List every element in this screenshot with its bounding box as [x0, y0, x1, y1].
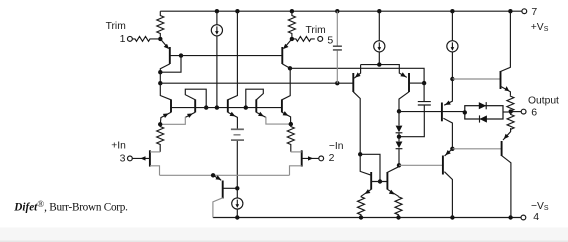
wire -Vs bottom rail: [213, 217, 521, 219]
svg-text:+VS: +VS: [531, 22, 549, 33]
node bottom rail junctions: [235, 215, 513, 219]
resistor R9 (output upper): [507, 96, 514, 112]
node emitters D/E: [289, 122, 293, 126]
node I3 output: [450, 77, 454, 81]
transistor Q5 (cascode NPN C): [228, 99, 238, 128]
svg-text:4: 4: [533, 211, 539, 223]
wire Q1 collector to node A column: [159, 72, 161, 83]
transistor Q14 (output NPN): [501, 11, 511, 96]
pin 1 terminal: [127, 36, 132, 41]
node driver emitter: [450, 147, 454, 151]
wire I3 to Q14 base: [452, 78, 500, 80]
transistor Q16 (PNP lower driver): [443, 149, 453, 218]
resistor R3 (top right, +Vs to trim node 5): [288, 11, 295, 37]
svg-text:Difet®, Burr-Brown Corp.: Difet®, Burr-Brown Corp.: [13, 199, 128, 213]
svg-text:Trim: Trim: [106, 21, 126, 32]
node second stage out: [397, 109, 401, 113]
node Q2 collector: [288, 66, 292, 70]
wire output: [511, 111, 522, 113]
resistor R7 (mirror left): [358, 196, 365, 217]
wire to output PNP base: [452, 148, 501, 150]
node Q8 base / cap: [235, 186, 239, 190]
transistor Q15 (output PNP): [502, 128, 511, 217]
node output: [508, 109, 512, 113]
svg-text:5: 5: [327, 34, 333, 46]
node trim5 junction: [290, 37, 294, 41]
wire cascode base rail: [171, 107, 282, 109]
svg-text:Trim: Trim: [306, 25, 326, 36]
transistor Q4 (cascode PNP B, diode-connected): [160, 89, 208, 124]
wire vertical x237 (+Vs to Q5): [228, 11, 238, 100]
svg-text:1: 1: [120, 33, 126, 45]
current source I3 (output bias): [447, 11, 458, 79]
current source I4 (tail): [232, 188, 243, 217]
transistor Q7 (cascode NPN E): [282, 68, 291, 124]
resistor R1 (top left, +Vs to trim node): [157, 11, 164, 37]
pin 2 terminal: [319, 156, 324, 161]
diode D1: [396, 111, 403, 136]
transistor Q6 (cascode NPN D, diode-connected): [244, 89, 291, 124]
wire left rail y83: [160, 82, 353, 84]
svg-text:7: 7: [531, 6, 537, 18]
capacitor C3 (compensation): [399, 83, 431, 137]
wire Q1-Q2 base rail: [181, 55, 282, 57]
resistor R5 (above +In JFET): [157, 124, 164, 152]
node between diodes: [397, 135, 401, 139]
node diode bottom: [397, 163, 401, 167]
node I2 output: [377, 62, 381, 66]
wire diode bottom to Q16 base: [399, 164, 443, 166]
capacitor C1 (from +Vs, x=337): [333, 11, 342, 83]
wire mirror bases: [371, 181, 387, 183]
node comp top: [422, 81, 426, 85]
wire base drive: [399, 111, 465, 113]
svg-text:2: 2: [329, 152, 335, 164]
resistor R4 (trim 5): [292, 37, 315, 42]
pin 6 terminal: [521, 109, 526, 114]
transistor Q12 (mirror NPN right): [387, 167, 398, 197]
wire Q2 collector to comp node: [290, 68, 424, 83]
diode box (D3/D4): [463, 102, 509, 123]
transistor Q2 (PNP, right bias): [282, 39, 292, 68]
pin 4 terminal: [521, 215, 526, 220]
transistor Q1 (PNP diode-connected, left bias): [158, 39, 183, 75]
current source I1 (left): [211, 11, 222, 107]
transistor Q11 (mirror NPN left): [358, 152, 380, 196]
transistor Q10 (2nd stage right PNP): [399, 72, 424, 111]
transistor J1 (+In JFET): [132, 150, 160, 175]
pin 7 terminal: [522, 9, 527, 14]
node base rail I1: [215, 105, 219, 109]
current source I2 (second stage tail): [374, 11, 385, 64]
capacitor C2 (stacked, below Q5): [231, 129, 244, 188]
node trim1 junction: [158, 37, 162, 41]
footer hairline: [0, 241, 568, 242]
node top rail junctions: [215, 9, 513, 13]
svg-text:−VS: −VS: [531, 201, 549, 212]
wire +Vs top rail: [160, 10, 522, 12]
node tail: [211, 173, 215, 177]
svg-text:6: 6: [531, 106, 537, 118]
resistor R8 (mirror right): [395, 196, 402, 217]
transistor Q3 (cascode PNP A): [160, 83, 171, 124]
svg-text:+In: +In: [111, 140, 126, 151]
resistor R10 (output lower): [507, 112, 514, 130]
node emitters A/B: [158, 122, 162, 126]
pin 3 terminal: [127, 156, 132, 161]
transistor Q8 (tail PNP): [213, 175, 237, 217]
node cap337 junction: [335, 81, 339, 85]
pin 5 terminal: [318, 36, 323, 41]
footer band: [0, 228, 568, 242]
transistor Q9 (2nd stage left PNP): [353, 65, 360, 155]
node mirror bases: [378, 179, 382, 183]
wire JFET sources: [160, 174, 290, 176]
resistor R6 (above -In JFET): [287, 124, 294, 152]
wire 2nd stage emitters: [361, 65, 407, 78]
node A (left cascode rail): [158, 81, 162, 85]
transistor J2 (-In JFET): [290, 150, 319, 175]
svg-text:3: 3: [120, 153, 126, 165]
diode D2: [396, 137, 403, 166]
svg-text:Output: Output: [528, 95, 559, 106]
transistor Q13 (PNP pre-driver): [442, 79, 453, 149]
resistor R2 (trim 1): [132, 37, 158, 42]
svg-text:−In: −In: [329, 141, 344, 152]
